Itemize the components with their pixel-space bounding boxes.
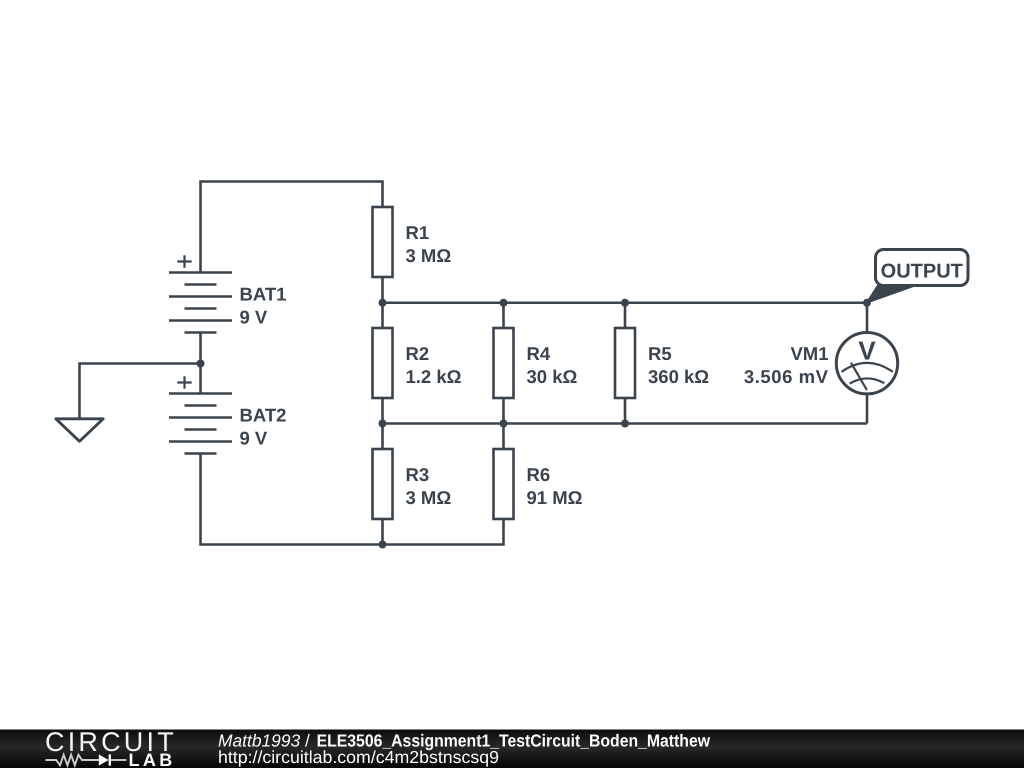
resistor R3 [373, 424, 452, 545]
node between batteries [197, 360, 205, 368]
wire BAT2 bottom to lower rail [201, 454, 504, 545]
battery BAT1 [169, 255, 286, 363]
wire bottom bus [383, 422, 868, 425]
wire R1 bottom lead [381, 277, 384, 303]
svg-text:9 V: 9 V [240, 306, 268, 327]
wire top bus node A to output [383, 301, 868, 304]
svg-text:http://circuitlab.com/c4m2bstn: http://circuitlab.com/c4m2bstnscsq9 [218, 747, 499, 767]
wire to ground [80, 364, 201, 419]
svg-text:BAT2: BAT2 [240, 404, 287, 425]
svg-text:360 kΩ: 360 kΩ [648, 366, 709, 387]
battery BAT2 [169, 364, 286, 454]
svg-text:R1: R1 [406, 222, 430, 243]
svg-text:30 kΩ: 30 kΩ [527, 366, 578, 387]
node junction dots bottom bus [379, 420, 630, 428]
svg-text:R5: R5 [648, 343, 672, 364]
node OUTPUT dot [863, 299, 871, 307]
svg-text:OUTPUT: OUTPUT [881, 260, 963, 282]
svg-text:3 MΩ: 3 MΩ [406, 487, 452, 508]
footer url line [218, 747, 499, 767]
flag OUTPUT [867, 250, 968, 303]
node junction dot lower rail [379, 541, 387, 549]
wire top loop from BAT1 plus to R1 [201, 182, 383, 273]
logo CIRCUIT [45, 727, 177, 757]
svg-text:R3: R3 [406, 464, 430, 485]
svg-text:91 MΩ: 91 MΩ [527, 487, 583, 508]
ground [56, 419, 103, 442]
resistor R2 [373, 303, 462, 424]
svg-text:LAB: LAB [129, 750, 176, 768]
svg-text:BAT1: BAT1 [240, 283, 287, 304]
svg-text:3 MΩ: 3 MΩ [406, 245, 452, 266]
node junction dots top bus [379, 299, 630, 307]
logo LAB [129, 750, 176, 768]
footer title line [218, 731, 710, 751]
resistor R1 [373, 207, 452, 277]
svg-text:3.506 mV: 3.506 mV [744, 366, 829, 387]
resistor R5 [615, 303, 709, 424]
svg-text:R2: R2 [406, 343, 430, 364]
voltmeter VM1 [744, 303, 898, 424]
footer bar [0, 730, 1024, 768]
resistor R4 [494, 303, 578, 424]
svg-text:R4: R4 [527, 343, 551, 364]
resistor R6 [494, 424, 583, 520]
logo zigzag diode [46, 754, 127, 765]
svg-text:1.2 kΩ: 1.2 kΩ [406, 366, 462, 387]
svg-text:V: V [858, 335, 876, 365]
svg-text:9 V: 9 V [240, 427, 268, 448]
svg-text:R6: R6 [527, 464, 551, 485]
svg-text:VM1: VM1 [790, 343, 828, 364]
